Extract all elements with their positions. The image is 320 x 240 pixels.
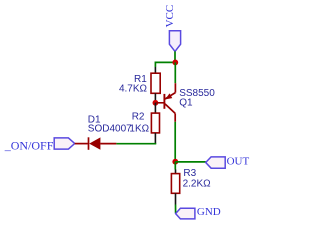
svg-text:2.2KΩ: 2.2KΩ [183,178,212,189]
svg-text:GND: GND [197,206,221,218]
pin R2 bottom [154,133,156,144]
svg-text:OUT: OUT [227,155,250,167]
wire junction down to emitter [174,62,176,83]
wire R3 to GND [175,205,177,214]
port _ON/OFF [54,138,74,149]
svg-text:_ON/OFF: _ON/OFF [4,139,54,153]
wire diode to R2 [116,142,155,145]
pin R3 top [175,170,177,174]
pin R3 bottom [175,193,177,204]
svg-text:R3: R3 [183,168,196,179]
port OUT [206,157,226,168]
wire junction to OUT port [175,161,205,163]
svg-text:4.7KΩ: 4.7KΩ [119,84,148,95]
resistor R3 [171,174,179,194]
diode D1 [89,137,117,150]
svg-text:Q1: Q1 [179,97,193,108]
svg-text:VCC: VCC [164,5,176,28]
node junction VCC/R1/Q1-emitter [172,60,178,66]
wire junction to R3 [174,162,176,170]
transistor Q1 [164,83,175,122]
resistor R1 [151,73,160,93]
svg-text:R2: R2 [132,112,145,123]
power port VCC [169,31,180,52]
pin D1 anode-side wire [75,143,88,145]
pin R1 top [154,67,156,73]
wire VCC to junction [174,51,176,62]
wire collector to OUT junction [174,122,176,162]
pin R1 bottom [154,93,156,103]
pin R2 top [154,103,156,113]
resistor R2 [151,113,159,133]
wire junction to R1 corner [155,62,175,67]
node junction R1/R2/Q1-base [153,100,159,106]
port GND [176,208,195,219]
pin Q1 base [155,102,164,104]
svg-text:SOD4007: SOD4007 [88,124,132,135]
node junction OUT/R3 [172,159,178,165]
svg-text:1KΩ: 1KΩ [129,124,149,135]
